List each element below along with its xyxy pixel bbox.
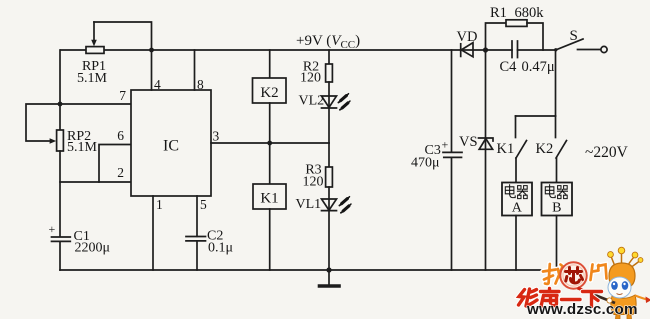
- watermark mascot: [578, 247, 650, 319]
- op-amp IC U1 box: [131, 90, 211, 196]
- svg-text:5.1M: 5.1M: [67, 140, 98, 155]
- RP2 wiper arrowhead: [50, 138, 57, 144]
- junction node switch pivot: [554, 48, 557, 51]
- wire K2 coil to pin3 net: [269, 103, 271, 143]
- wire top rail main segment (+9V rail): [104, 49, 512, 51]
- svg-text:+: +: [442, 138, 449, 152]
- wire switch to terminal: [578, 49, 601, 51]
- svg-text:4: 4: [154, 77, 161, 92]
- svg-text:K1: K1: [497, 141, 515, 157]
- contact K1 lever: [516, 141, 527, 159]
- appliance B glyphs 电器 B: [545, 184, 568, 215]
- capacitor C3 plates: [443, 152, 462, 157]
- wire IC pin 8: [194, 50, 196, 90]
- watermark logo group: [519, 247, 650, 319]
- VL2 flash arrows: [338, 94, 350, 110]
- watermark char pian: [591, 265, 607, 281]
- wire C3 riser: [451, 50, 453, 152]
- junction node VD / R1 / VS: [483, 47, 488, 52]
- svg-text:2200μ: 2200μ: [75, 241, 111, 256]
- wire C3 to ground rail: [451, 157, 453, 270]
- junction node pin3 / K coils: [267, 141, 272, 146]
- wire IC pin 4: [151, 50, 153, 90]
- svg-text:1: 1: [156, 197, 163, 212]
- wire IC pin 1 to ground rail: [152, 196, 154, 270]
- ground symbol stub: [328, 270, 330, 285]
- svg-text:K2: K2: [536, 141, 554, 157]
- relay coil K1 box: [253, 184, 286, 209]
- wire K2 contact upper: [555, 116, 557, 138]
- contact K2 lever: [556, 141, 567, 159]
- svg-text:120: 120: [303, 175, 324, 190]
- mascot antenna stalks: [611, 253, 640, 268]
- junction node RP1 right / pin4: [149, 48, 154, 53]
- svg-text:VL1: VL1: [296, 197, 322, 212]
- svg-text:6: 6: [117, 128, 124, 143]
- potentiometer RP1: [86, 47, 104, 54]
- mascot legs: [616, 315, 632, 319]
- svg-text:+: +: [49, 222, 56, 236]
- wire C2 to ground rail: [196, 241, 198, 270]
- resistor R1: [506, 20, 527, 27]
- svg-text:IC: IC: [163, 138, 179, 155]
- svg-text:B: B: [552, 201, 561, 216]
- mascot eyes: [611, 281, 618, 290]
- watermark text weikuyixia: [519, 289, 602, 307]
- junction node ground: [326, 267, 331, 272]
- LED VL2: [322, 96, 337, 108]
- zener diode VS cathode bar: [479, 138, 494, 141]
- mascot head: [609, 263, 635, 289]
- watermark char xin inside magnifier: [566, 268, 583, 284]
- svg-text:A: A: [512, 201, 523, 216]
- wire K1 contact upper: [515, 116, 517, 138]
- capacitor C2 plates: [186, 237, 206, 241]
- watermark magnifier circle: [560, 262, 586, 288]
- junction node RP2 top / pin7: [58, 102, 63, 107]
- wire top rail after C4 to switch: [518, 49, 556, 51]
- diode VD triangle: [461, 43, 473, 57]
- appliance A glyphs 电器 A: [505, 184, 528, 215]
- wire VL1 to ground rail: [328, 211, 330, 270]
- resistor R3: [326, 167, 333, 187]
- appliance B box: [542, 183, 573, 216]
- wire RP1 wiper arrow shaft: [93, 22, 95, 41]
- svg-text:5.1M: 5.1M: [77, 71, 108, 86]
- svg-text:VS: VS: [459, 134, 478, 150]
- wire K1 coil to ground rail: [269, 209, 271, 270]
- svg-text:2: 2: [117, 165, 124, 180]
- wire VS vertical: [485, 50, 487, 270]
- wire left vertical rail x60 middle: [59, 151, 61, 236]
- wire R3 to VL1: [328, 187, 330, 211]
- watermark text weikuyixia halo: [519, 289, 602, 307]
- wire left vertical rail x60 lower: [59, 242, 61, 270]
- wire IC pin 3 net: [211, 142, 329, 144]
- mascot face: [608, 277, 631, 298]
- ground symbol bar: [320, 284, 340, 288]
- switch S lever: [556, 39, 584, 50]
- svg-text:VL2: VL2: [299, 94, 325, 109]
- svg-text:120: 120: [300, 71, 321, 86]
- svg-text:S: S: [570, 28, 578, 44]
- capacitor C1 plates: [52, 237, 71, 241]
- svg-text:3: 3: [213, 129, 220, 144]
- watermark char zhao: [543, 264, 564, 284]
- svg-text:VD: VD: [457, 29, 478, 45]
- capacitor C4 plates: [512, 41, 518, 58]
- wire R1 loop left riser: [486, 23, 507, 50]
- svg-text:7: 7: [119, 88, 126, 103]
- svg-text:K1: K1: [260, 191, 278, 207]
- wire bottom ground rail: [60, 269, 557, 271]
- svg-text:R1680k: R1680k: [490, 5, 544, 21]
- wire IC pin 2: [60, 181, 131, 183]
- wire pin3 net to K1 coil: [269, 143, 271, 184]
- wire R3 top lead: [328, 143, 330, 167]
- LED VL1: [322, 199, 337, 211]
- wire appliance B to rail: [556, 216, 558, 271]
- diode VD cathode bar: [460, 44, 462, 57]
- svg-text:www.dzsc.com: www.dzsc.com: [526, 301, 638, 318]
- svg-text:~220V: ~220V: [585, 144, 629, 161]
- wire R2 to VL2: [328, 82, 330, 143]
- svg-text:0.1μ: 0.1μ: [208, 241, 233, 256]
- svg-text:470μ: 470μ: [411, 156, 440, 171]
- wire K2 contact lower: [556, 158, 558, 183]
- watermark char zhao white halo: [543, 264, 564, 284]
- resistor R2: [326, 64, 333, 82]
- wire IC pin 6: [99, 145, 131, 183]
- mascot body: [611, 295, 636, 315]
- wire K2 coil riser from rail: [269, 50, 271, 78]
- zener diode VS triangle: [479, 139, 492, 150]
- watermark char pian white halo: [591, 265, 607, 281]
- RP1 wiper arrowhead: [91, 40, 97, 47]
- VL1 flash arrows: [339, 197, 351, 213]
- wire RP1 wiper loop: [94, 22, 152, 50]
- mascot pen: [581, 290, 615, 304]
- svg-text:8: 8: [197, 77, 204, 92]
- wire R2 riser: [328, 50, 330, 64]
- wire contact bracket: [516, 115, 556, 117]
- wire R1 loop right riser: [527, 23, 543, 50]
- wire RP2 wiper loop: [26, 104, 60, 141]
- wire IC pin 7: [60, 103, 131, 105]
- wire top rail left segment: [61, 49, 86, 51]
- appliance A box: [502, 183, 532, 216]
- svg-text:C40.47μ: C40.47μ: [500, 59, 555, 75]
- wire appliance A to rail: [515, 216, 517, 271]
- svg-text:K2: K2: [260, 85, 278, 101]
- mascot tail: [635, 296, 647, 300]
- mascot mouth: [617, 294, 623, 295]
- wire switch common down riser: [555, 50, 557, 116]
- mascot antenna balls: [608, 252, 614, 258]
- wire K1 contact lower: [515, 158, 517, 183]
- wire left vertical rail x60 upper: [59, 50, 61, 130]
- wire IC pin 5 to C2: [196, 196, 198, 236]
- relay coil K2 box: [253, 78, 287, 103]
- switch S terminal circle: [601, 46, 607, 52]
- svg-text:5: 5: [200, 197, 207, 212]
- potentiometer RP2: [57, 130, 64, 151]
